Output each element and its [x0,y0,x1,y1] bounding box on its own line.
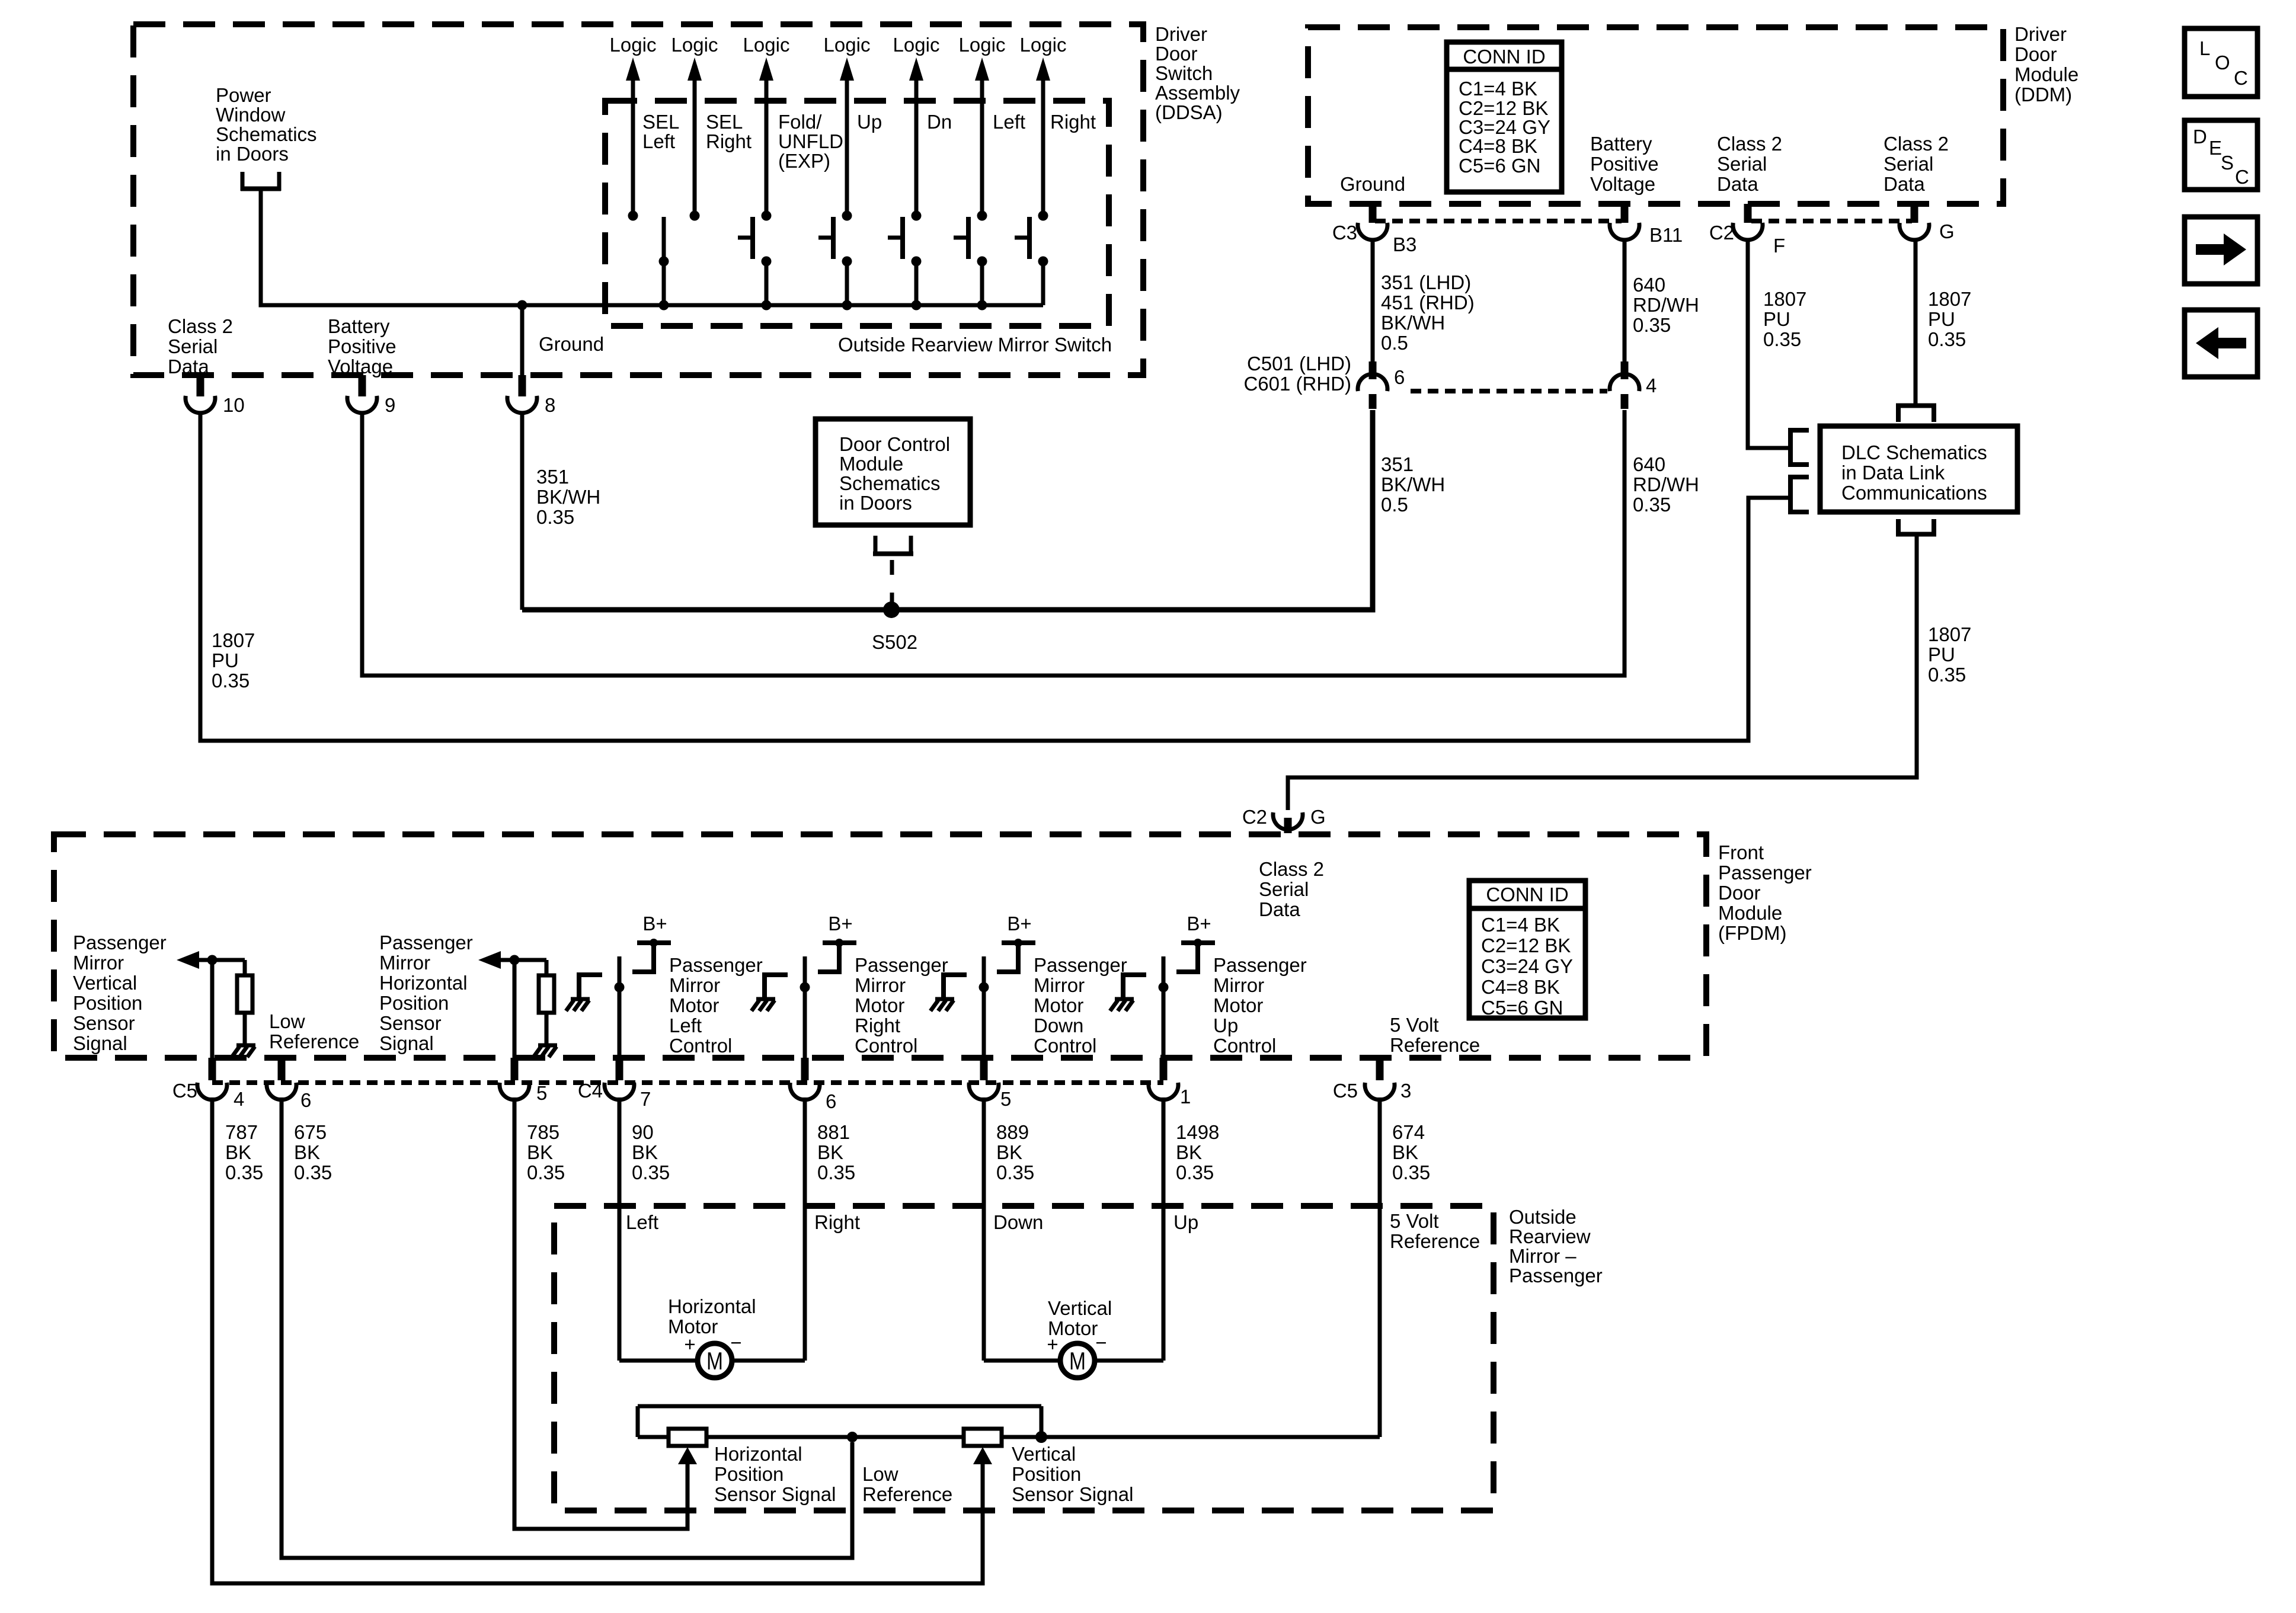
svg-text:Data: Data [1717,173,1758,195]
svg-text:Schematics: Schematics [216,123,317,145]
svg-text:Mirror –: Mirror – [1509,1245,1576,1267]
svg-text:0.35: 0.35 [817,1161,855,1183]
svg-text:0.35: 0.35 [225,1161,263,1183]
svg-text:C: C [2235,166,2249,188]
svg-text:Left: Left [669,1014,702,1036]
svg-text:G: G [1939,220,1955,242]
svg-text:Door: Door [1718,882,1761,904]
svg-text:Right: Right [814,1211,860,1233]
svg-text:Passenger: Passenger [1213,954,1307,976]
svg-text:Positive: Positive [328,335,396,357]
svg-text:SEL: SEL [642,111,679,133]
svg-text:Serial: Serial [1259,878,1309,900]
svg-text:0.35: 0.35 [527,1161,565,1183]
svg-text:889: 889 [996,1121,1029,1143]
svg-text:Up: Up [1173,1211,1198,1233]
svg-text:Horizontal: Horizontal [714,1443,802,1465]
svg-text:640: 640 [1633,274,1665,296]
svg-text:+: + [1047,1333,1058,1355]
svg-text:Motor: Motor [855,994,904,1016]
svg-text:Class 2: Class 2 [1884,133,1949,155]
svg-text:BK: BK [1392,1141,1418,1163]
svg-text:Reference: Reference [1390,1230,1480,1252]
svg-text:in Doors: in Doors [839,492,912,514]
svg-text:Module: Module [1718,902,1782,924]
svg-text:BK: BK [817,1141,843,1163]
svg-text:PU: PU [1928,308,1955,330]
svg-text:Serial: Serial [1717,153,1767,175]
svg-text:UNFLD: UNFLD [778,130,843,152]
svg-text:Schematics: Schematics [839,472,941,494]
svg-text:BK: BK [294,1141,320,1163]
svg-text:0.35: 0.35 [1928,328,1966,350]
svg-text:BK: BK [1176,1141,1202,1163]
svg-text:Dn: Dn [927,111,952,133]
svg-text:B11: B11 [1649,224,1683,246]
svg-text:90: 90 [632,1121,654,1143]
svg-text:10: 10 [223,394,245,416]
svg-text:BK: BK [996,1141,1022,1163]
svg-text:Communications: Communications [1841,482,1987,504]
svg-text:B+: B+ [1007,913,1031,934]
svg-text:881: 881 [817,1121,850,1143]
svg-text:Mirror: Mirror [669,974,720,996]
svg-text:Fold/: Fold/ [778,111,822,133]
svg-text:Up: Up [1213,1014,1238,1036]
svg-text:Data: Data [1259,898,1300,920]
svg-text:8: 8 [545,394,555,416]
svg-text:PU: PU [1928,644,1955,665]
svg-text:351: 351 [1381,453,1414,475]
svg-text:787: 787 [225,1121,258,1143]
svg-text:351: 351 [536,466,569,488]
svg-text:C5=6 GN: C5=6 GN [1459,155,1540,177]
svg-text:Ground: Ground [539,333,604,355]
svg-text:C3=24 GY: C3=24 GY [1481,955,1573,977]
svg-text:Battery: Battery [328,315,390,337]
svg-text:5 Volt: 5 Volt [1390,1014,1439,1036]
svg-text:Mirror: Mirror [379,952,430,974]
svg-text:Passenger: Passenger [1718,862,1812,884]
svg-text:PU: PU [1763,308,1790,330]
svg-text:C2: C2 [1709,222,1734,244]
svg-text:Driver: Driver [2014,23,2067,45]
svg-text:Driver: Driver [1155,23,1207,45]
svg-text:Class 2: Class 2 [168,315,233,337]
svg-text:Down: Down [993,1211,1043,1233]
svg-text:C: C [2234,67,2248,89]
svg-text:6: 6 [300,1089,311,1111]
svg-text:0.35: 0.35 [1392,1161,1430,1183]
svg-text:Front: Front [1718,841,1764,863]
svg-text:Mirror: Mirror [73,952,124,974]
svg-text:351 (LHD): 351 (LHD) [1381,271,1471,293]
svg-text:E: E [2209,137,2222,159]
svg-text:in Doors: in Doors [216,143,289,165]
svg-text:Motor: Motor [1034,994,1083,1016]
svg-text:0.35: 0.35 [1633,494,1671,516]
svg-text:Rearview: Rearview [1509,1225,1591,1247]
svg-text:Door: Door [1155,43,1198,65]
svg-text:Logic: Logic [824,34,871,56]
svg-text:C4: C4 [578,1080,603,1102]
svg-text:Logic: Logic [743,34,790,56]
svg-text:Logic: Logic [1020,34,1067,56]
svg-text:Position: Position [714,1463,784,1485]
svg-text:Power: Power [216,84,271,106]
svg-text:BK/WH: BK/WH [536,486,600,508]
svg-text:640: 640 [1633,453,1665,475]
svg-text:Left: Left [642,130,675,152]
svg-text:C5=6 GN: C5=6 GN [1481,997,1563,1019]
svg-text:D: D [2193,126,2207,148]
svg-text:Horizontal: Horizontal [379,972,468,994]
svg-text:674: 674 [1392,1121,1425,1143]
svg-text:451 (RHD): 451 (RHD) [1381,292,1475,313]
svg-text:1807: 1807 [212,629,255,651]
svg-text:1: 1 [1180,1086,1191,1108]
svg-text:Right: Right [706,130,752,152]
svg-text:B+: B+ [1187,913,1211,934]
svg-text:B+: B+ [642,913,667,934]
svg-text:B3: B3 [1393,233,1416,255]
svg-text:Passenger: Passenger [669,954,763,976]
svg-text:Up: Up [857,111,882,133]
svg-text:Position: Position [379,992,449,1014]
svg-text:0.35: 0.35 [536,506,574,528]
svg-text:C5: C5 [1333,1080,1358,1102]
svg-text:(DDM): (DDM) [2014,84,2072,105]
svg-text:Sensor Signal: Sensor Signal [714,1483,836,1505]
svg-text:Module: Module [839,453,903,475]
svg-text:Passenger: Passenger [379,932,473,953]
svg-text:Position: Position [1012,1463,1081,1485]
svg-text:Position: Position [73,992,142,1014]
svg-text:G: G [1310,806,1326,828]
svg-text:0.35: 0.35 [1763,328,1801,350]
svg-text:Motor: Motor [1213,994,1263,1016]
svg-text:CONN ID: CONN ID [1486,884,1568,905]
svg-text:S502: S502 [872,631,917,653]
svg-text:Data: Data [1884,173,1925,195]
svg-text:Assembly: Assembly [1155,82,1240,104]
svg-text:SEL: SEL [706,111,743,133]
svg-text:−: − [1095,1332,1107,1353]
svg-text:0.5: 0.5 [1381,494,1408,516]
svg-text:Low: Low [269,1010,305,1032]
svg-text:Passenger: Passenger [73,932,167,953]
svg-text:Sensor Signal: Sensor Signal [1012,1483,1133,1505]
svg-text:−: − [730,1332,741,1353]
svg-text:Right: Right [1050,111,1096,133]
svg-text:0.35: 0.35 [212,670,250,692]
svg-text:Mirror: Mirror [1213,974,1264,996]
svg-text:C5: C5 [172,1080,197,1102]
svg-text:BK: BK [225,1141,251,1163]
svg-text:BK/WH: BK/WH [1381,312,1445,334]
svg-text:Class 2: Class 2 [1259,858,1324,880]
svg-text:1807: 1807 [1763,288,1806,310]
svg-text:Positive: Positive [1590,153,1659,175]
svg-text:Logic: Logic [893,34,940,56]
svg-text:RD/WH: RD/WH [1633,294,1699,316]
svg-text:0.35: 0.35 [1633,314,1671,336]
svg-text:0.35: 0.35 [632,1161,670,1183]
svg-text:Right: Right [855,1014,900,1036]
svg-text:Mirror: Mirror [855,974,906,996]
svg-text:Passenger: Passenger [1509,1265,1603,1286]
svg-text:5 Volt: 5 Volt [1390,1210,1439,1232]
svg-text:6: 6 [1394,366,1405,388]
svg-text:Door: Door [2014,43,2057,65]
svg-text:Outside Rearview Mirror Switch: Outside Rearview Mirror Switch [838,334,1112,356]
svg-text:Control: Control [1213,1035,1276,1057]
svg-text:RD/WH: RD/WH [1633,473,1699,495]
svg-text:Outside: Outside [1509,1206,1576,1228]
svg-text:C4=8 BK: C4=8 BK [1481,976,1560,998]
svg-text:Signal: Signal [379,1032,434,1054]
svg-text:Window: Window [216,104,286,126]
svg-text:Vertical: Vertical [1012,1443,1076,1465]
svg-text:Data: Data [168,356,209,377]
svg-text:(DDSA): (DDSA) [1155,101,1223,123]
svg-text:0.5: 0.5 [1381,332,1408,354]
svg-text:Signal: Signal [73,1032,127,1054]
svg-text:Left: Left [993,111,1025,133]
svg-text:Logic: Logic [671,34,718,56]
svg-text:M: M [706,1347,723,1375]
svg-text:C1=4 BK: C1=4 BK [1481,914,1560,936]
svg-text:Module: Module [2014,63,2078,85]
svg-text:C601 (RHD): C601 (RHD) [1243,373,1351,395]
svg-text:Logic: Logic [610,34,657,56]
svg-text:+: + [684,1333,695,1355]
svg-text:Control: Control [1034,1035,1096,1057]
svg-text:7: 7 [640,1088,651,1110]
svg-text:Voltage: Voltage [328,356,393,377]
svg-text:Low: Low [862,1463,898,1485]
svg-text:Control: Control [669,1035,732,1057]
svg-text:(EXP): (EXP) [778,150,830,172]
svg-text:6: 6 [826,1090,836,1112]
svg-text:BK: BK [527,1141,553,1163]
svg-text:Down: Down [1034,1014,1083,1036]
svg-text:785: 785 [527,1121,559,1143]
svg-text:Sensor: Sensor [73,1012,135,1034]
svg-text:0.35: 0.35 [1176,1161,1214,1183]
svg-text:1807: 1807 [1928,288,1971,310]
svg-text:Logic: Logic [959,34,1006,56]
svg-text:(FPDM): (FPDM) [1718,922,1786,944]
svg-text:L: L [2199,37,2210,59]
svg-text:Serial: Serial [1884,153,1933,175]
svg-text:0.35: 0.35 [294,1161,332,1183]
svg-text:C3: C3 [1332,222,1357,244]
svg-text:3: 3 [1400,1080,1411,1102]
svg-text:0.35: 0.35 [1928,664,1966,686]
svg-text:BK: BK [632,1141,658,1163]
svg-text:C1=4 BK: C1=4 BK [1459,78,1537,100]
svg-text:BK/WH: BK/WH [1381,473,1445,495]
svg-text:F: F [1773,235,1785,257]
svg-text:Door Control: Door Control [839,433,950,455]
svg-text:1498: 1498 [1176,1121,1219,1143]
svg-text:O: O [2215,52,2230,73]
svg-text:B+: B+ [828,913,852,934]
svg-text:in Data Link: in Data Link [1841,462,1945,484]
svg-text:PU: PU [212,649,239,671]
svg-text:Passenger: Passenger [1034,954,1127,976]
svg-text:Passenger: Passenger [855,954,948,976]
svg-text:Mirror: Mirror [1034,974,1085,996]
svg-text:5: 5 [536,1082,547,1104]
svg-text:Serial: Serial [168,335,218,357]
svg-text:Switch: Switch [1155,62,1213,84]
svg-text:M: M [1069,1347,1086,1375]
svg-text:Vertical: Vertical [73,972,137,994]
svg-text:4: 4 [234,1088,244,1110]
svg-text:Horizontal: Horizontal [668,1295,756,1317]
svg-text:Reference: Reference [862,1483,952,1505]
svg-text:Motor: Motor [669,994,719,1016]
svg-text:C2: C2 [1242,806,1267,828]
svg-text:Reference: Reference [1390,1034,1480,1056]
svg-text:C501 (LHD): C501 (LHD) [1247,353,1351,375]
svg-text:Battery: Battery [1590,133,1652,155]
svg-text:S: S [2221,152,2234,174]
svg-text:C4=8 BK: C4=8 BK [1459,135,1537,157]
svg-text:4: 4 [1646,375,1657,396]
svg-text:Sensor: Sensor [379,1012,442,1034]
svg-text:675: 675 [294,1121,327,1143]
svg-text:Control: Control [855,1035,917,1057]
svg-text:Ground: Ground [1340,173,1405,195]
svg-text:Voltage: Voltage [1590,173,1655,195]
svg-text:DLC Schematics: DLC Schematics [1841,441,1987,463]
svg-text:Left: Left [626,1211,658,1233]
svg-text:C2=12 BK: C2=12 BK [1481,934,1571,956]
svg-text:Vertical: Vertical [1048,1297,1112,1319]
svg-text:1807: 1807 [1928,623,1971,645]
svg-text:9: 9 [385,394,395,416]
svg-text:Class 2: Class 2 [1717,133,1782,155]
svg-text:0.35: 0.35 [996,1161,1034,1183]
svg-text:5: 5 [1000,1088,1011,1110]
svg-text:CONN ID: CONN ID [1463,46,1545,68]
svg-text:Reference: Reference [269,1030,359,1052]
